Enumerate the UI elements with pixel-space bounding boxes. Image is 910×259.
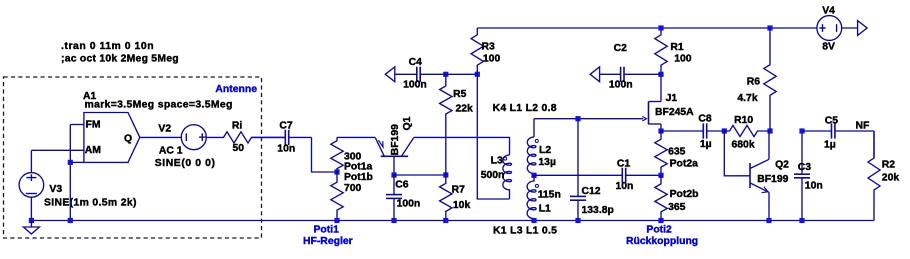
value 10k (R7) [453, 200, 471, 211]
label V2 [158, 124, 171, 135]
label C2 [614, 43, 628, 54]
label R6 [747, 77, 761, 88]
svg-text:680k: 680k [732, 140, 755, 151]
label R2 [882, 160, 896, 171]
svg-text:100n: 100n [397, 199, 421, 210]
svg-text:Rückkopplung: Rückkopplung [626, 236, 698, 247]
svg-text:100: 100 [483, 54, 501, 65]
inductor L3 [503, 155, 512, 199]
label NF [856, 121, 870, 132]
label C3 [798, 162, 812, 173]
junction R1 top [658, 25, 663, 30]
junction R7-rail [443, 218, 448, 223]
svg-text:C2: C2 [614, 43, 628, 54]
label BF199 (Q1) [390, 124, 401, 155]
value 133.8p [582, 205, 614, 216]
jfet J1 [642, 74, 661, 131]
value 10n (C3) [805, 181, 823, 192]
value AC 1 [159, 146, 183, 157]
svg-text:Q1: Q1 [402, 116, 413, 130]
phase dot L1 [535, 184, 538, 187]
resistor R2 [868, 131, 880, 221]
ground symbol at C4 [385, 67, 395, 82]
junction C12 top [575, 116, 580, 121]
junction V3-rail [29, 218, 34, 223]
svg-text:50: 50 [233, 143, 245, 154]
inductor L2 [527, 137, 536, 175]
phase dot L3 [504, 157, 507, 160]
label Poti1 [314, 225, 340, 236]
svg-text:R7: R7 [452, 185, 466, 196]
svg-text:8V: 8V [822, 41, 835, 52]
svg-text:C7: C7 [279, 120, 293, 131]
capacitor C12 [570, 119, 586, 221]
svg-text:4.7k: 4.7k [737, 93, 757, 104]
svg-text:500n: 500n [481, 170, 505, 181]
junction L1-rail [531, 218, 536, 223]
capacitor C3 [794, 131, 810, 221]
junction J1 source node [658, 128, 663, 133]
junction C6-rail [391, 218, 396, 223]
svg-text:Pot1a: Pot1a [344, 162, 373, 173]
svg-text:V2: V2 [158, 124, 171, 135]
junction L1/L2 tap [531, 173, 536, 178]
junction C4/R3 node [475, 72, 480, 77]
svg-text:Pot1b: Pot1b [344, 172, 373, 183]
label K4 coupling [493, 103, 557, 114]
svg-text:R5: R5 [453, 89, 467, 100]
svg-text:1µ: 1µ [824, 139, 836, 150]
wire AM line from V3 to A1 [31, 149, 84, 151]
label Q2 [775, 160, 789, 171]
wire V3 bottom [30, 197, 32, 220]
voltage source V4 [817, 16, 842, 41]
pin label Q [124, 133, 132, 144]
pin label AM [85, 145, 101, 156]
svg-text:C6: C6 [395, 180, 409, 191]
resistor Pot2a [655, 131, 667, 175]
svg-text:100n: 100n [609, 80, 633, 91]
label Pot1a [344, 162, 373, 173]
svg-text:635: 635 [668, 146, 686, 157]
svg-text:133.8p: 133.8p [582, 205, 614, 216]
wire Q1 base to R7 top [394, 174, 446, 176]
value 22k [456, 103, 474, 114]
value 700 [344, 183, 362, 194]
label BF245A [655, 107, 694, 118]
capacitor C8 [661, 123, 724, 138]
supply rail wire [477, 27, 817, 29]
value SINE(1m 0.5m 2k) [44, 198, 137, 209]
junction Q1 base node [391, 172, 396, 177]
svg-text:100: 100 [674, 54, 692, 65]
inductor L1 [527, 175, 536, 220]
svg-text:SINE(1m 0.5m 2k): SINE(1m 0.5m 2k) [44, 198, 137, 209]
svg-text:AM: AM [85, 145, 101, 156]
wire L3 bottom to R3 column [477, 74, 509, 199]
value 100 (R3) [483, 54, 501, 65]
svg-text:10n: 10n [277, 144, 295, 155]
transistor Q2 [750, 131, 769, 221]
label C7 [279, 120, 293, 131]
value 1u (C5) [824, 139, 836, 150]
svg-text:Antenne: Antenne [215, 84, 257, 95]
value 100n (C2) [609, 80, 633, 91]
junction R1 bottom [658, 72, 663, 77]
spice directive ;ac [61, 54, 179, 65]
resistor R7 [440, 175, 452, 221]
svg-text:Q: Q [124, 133, 132, 144]
junction C12-rail [575, 218, 580, 223]
svg-text:BF245A: BF245A [655, 107, 694, 118]
value 50 [233, 143, 245, 154]
label C6 [395, 180, 409, 191]
label R1 [670, 42, 684, 53]
svg-text:700: 700 [344, 183, 362, 194]
svg-text:;ac oct 10k 2Meg 5Meg: ;ac oct 10k 2Meg 5Meg [61, 54, 179, 65]
ground symbol [23, 221, 39, 235]
svg-text:V3: V3 [49, 184, 62, 195]
capacitor C1 [620, 168, 661, 183]
svg-text:22k: 22k [456, 103, 474, 114]
value 100n (C6) [397, 199, 421, 210]
junction R6 top [767, 25, 772, 30]
value 10n [277, 144, 295, 155]
wire FM column down to rail [69, 125, 71, 221]
value SINE(0 0 0) [155, 158, 216, 169]
label L2 [539, 145, 551, 156]
svg-text:10k: 10k [453, 200, 471, 211]
wire tank to J1 gate [534, 118, 643, 120]
svg-text:R3: R3 [482, 41, 496, 52]
junction Q2 emitter-rail [766, 218, 771, 223]
svg-text:HF-Regler: HF-Regler [303, 236, 353, 247]
wire FM stub [70, 124, 84, 126]
voltage source V3 [19, 173, 44, 198]
svg-text:K1 L3 L1 0.5: K1 L3 L1 0.5 [493, 225, 557, 236]
svg-text:AC 1: AC 1 [159, 146, 183, 157]
ground rail wire [31, 220, 874, 222]
value 8V [822, 41, 835, 52]
value 115n [538, 190, 561, 201]
junction FM column at rail [68, 218, 73, 223]
junction R7 top node [443, 172, 448, 177]
svg-text:K4 L1 L2 0.8: K4 L1 L2 0.8 [493, 103, 557, 114]
label R10 [734, 115, 753, 126]
label Pot2a [670, 159, 699, 170]
svg-text:SINE(0 0 0): SINE(0 0 0) [155, 158, 216, 169]
svg-text:R10: R10 [734, 115, 753, 126]
voltage source V2 [181, 125, 206, 150]
svg-text:NF: NF [856, 121, 870, 132]
label Pot2b [670, 189, 699, 200]
value 100n (C4) [403, 79, 427, 90]
svg-text:C3: C3 [798, 162, 812, 173]
label C12 [582, 186, 601, 197]
label BF199 (Q2) [757, 174, 788, 185]
label L3 [491, 156, 503, 167]
svg-text:Pot2b: Pot2b [670, 189, 699, 200]
resistor Ri [206, 132, 285, 143]
svg-text:Poti1: Poti1 [314, 225, 340, 236]
svg-text:.tran 0 11m 0 10n: .tran 0 11m 0 10n [61, 41, 154, 52]
wire C7 to Poti1 wiper [312, 137, 338, 172]
value 300 [344, 152, 362, 163]
label Pot1b [344, 172, 373, 183]
label J1 [666, 93, 678, 104]
label K1 coupling [493, 225, 557, 236]
svg-text:10n: 10n [616, 181, 634, 192]
resistor Pot2b [655, 175, 667, 220]
capacitor C4 [395, 67, 478, 82]
resistor R5 [440, 74, 452, 175]
resistor R10 [724, 125, 770, 136]
capacitor C7 [252, 130, 312, 145]
label L1 [539, 203, 551, 214]
svg-text:C4: C4 [409, 57, 423, 68]
resistor R1 [655, 28, 667, 74]
value 20k [882, 173, 900, 184]
wire tap to C1 [534, 174, 620, 176]
label R5 [453, 89, 467, 100]
svg-text:C12: C12 [582, 186, 601, 197]
wire Pot1a top to Q1 emitter [337, 136, 375, 138]
label C8 [698, 114, 712, 125]
resistor R3 [471, 28, 483, 74]
svg-text:BF199: BF199 [757, 174, 788, 185]
svg-text:13µ: 13µ [538, 157, 556, 168]
wire V4 to ground triangle [842, 27, 858, 29]
svg-text:V4: V4 [822, 6, 835, 17]
ground symbol at V4 [858, 21, 868, 36]
junction A1 bottom pin [68, 160, 73, 165]
junction Poti1 wiper [334, 169, 339, 174]
wire NF corner down to R2 [873, 131, 875, 158]
svg-text:FM: FM [86, 119, 101, 130]
wire V3 top to AM line [30, 150, 32, 172]
svg-text:20k: 20k [882, 173, 900, 184]
value mark=3.5Meg space=3.5Meg [85, 100, 233, 111]
ground symbol at C2 [590, 67, 600, 82]
label Poti2 [646, 225, 672, 236]
label R7 [452, 185, 466, 196]
junction C3-rail [799, 218, 804, 223]
capacitor C2 [600, 67, 661, 82]
value 680k [732, 140, 755, 151]
resistor Pot1a [331, 137, 343, 172]
svg-text:10n: 10n [805, 181, 823, 192]
junction Poti2 wiper [658, 173, 663, 178]
svg-text:C8: C8 [698, 114, 712, 125]
svg-text:R2: R2 [882, 160, 896, 171]
label R3 [482, 41, 496, 52]
junction Pot1b-rail [334, 218, 339, 223]
svg-text:Pot2a: Pot2a [670, 159, 699, 170]
value 500n [481, 170, 505, 181]
label Rueckkopplung [626, 236, 698, 247]
svg-text:L2: L2 [539, 145, 551, 156]
svg-text:mark=3.5Meg space=3.5Meg: mark=3.5Meg space=3.5Meg [85, 100, 233, 111]
wire A1 bottom pin stub [70, 161, 84, 163]
transistor Q1 [375, 137, 414, 175]
svg-text:Poti2: Poti2 [646, 225, 672, 236]
wire A1 Q output to V2 [140, 136, 182, 138]
label V3 [49, 184, 62, 195]
svg-text:115n: 115n [538, 190, 561, 201]
junction R5 top [443, 72, 448, 77]
svg-text:L3: L3 [491, 156, 503, 167]
wire gate node to L2 [533, 119, 535, 137]
spice directive .tran [61, 41, 154, 52]
svg-text:Ri: Ri [232, 120, 243, 131]
label C1 [617, 159, 631, 170]
svg-text:C5: C5 [825, 116, 839, 127]
svg-text:R6: R6 [747, 77, 761, 88]
value 13u [538, 157, 556, 168]
value 635 [668, 146, 686, 157]
svg-text:J1: J1 [666, 93, 678, 104]
junction C3 top [799, 128, 804, 133]
svg-text:C1: C1 [617, 159, 631, 170]
label C5 [825, 116, 839, 127]
resistor R6 [764, 28, 776, 131]
junction C8/R10 node [722, 128, 727, 133]
svg-text:Q2: Q2 [775, 160, 789, 171]
svg-text:L1: L1 [539, 203, 551, 214]
label HF-Regler [303, 236, 353, 247]
value 365 [668, 202, 686, 213]
svg-text:R1: R1 [670, 42, 684, 53]
svg-text:BF199: BF199 [390, 124, 401, 155]
svg-text:1µ: 1µ [700, 139, 712, 150]
label Antenne [215, 84, 257, 95]
label A1 [83, 91, 97, 102]
phase dot L2 [535, 140, 538, 143]
svg-text:100n: 100n [403, 79, 427, 90]
label Q1 [402, 116, 413, 130]
resistor Pot1b [331, 172, 343, 221]
value 1u (C8) [700, 139, 712, 150]
capacitor C5 [802, 123, 874, 138]
value 4.7k [737, 93, 757, 104]
wire Q1 collector to L3 [414, 137, 510, 155]
wire C8 node to Q2 base [724, 131, 750, 176]
label C4 [409, 57, 423, 68]
Antenne dashed boundary box [4, 77, 262, 238]
capacitor C6 [386, 175, 402, 221]
value 10n (C1) [616, 181, 634, 192]
pin label FM [86, 119, 101, 130]
label Ri [232, 120, 243, 131]
svg-text:365: 365 [668, 202, 686, 213]
label V4 [822, 6, 835, 17]
junction R10/R6 node [767, 128, 772, 133]
junction Pot2b-rail [658, 218, 663, 223]
modulator A1 body [84, 113, 140, 163]
value 100 (R1) [674, 54, 692, 65]
